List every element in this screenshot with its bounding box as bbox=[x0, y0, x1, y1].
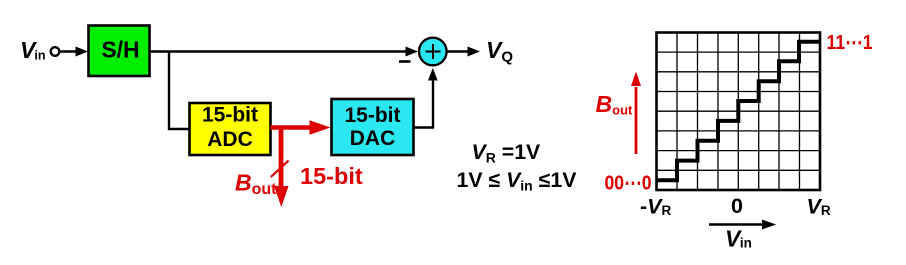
graph grid minor lines bbox=[657, 33, 821, 191]
wire summer to VQ bbox=[448, 50, 471, 52]
svg-text:Vin: Vin bbox=[725, 226, 752, 252]
input terminal circle bbox=[51, 47, 60, 56]
svg-text:15-bit: 15-bit bbox=[300, 163, 363, 189]
svg-text:Bout: Bout bbox=[235, 170, 277, 199]
minus sign bbox=[399, 60, 411, 63]
wire Vin to S/H bbox=[60, 50, 79, 52]
svg-text:VQ: VQ bbox=[486, 37, 513, 66]
axis Bout red arrow bbox=[635, 87, 638, 154]
svg-text:00⋯0: 00⋯0 bbox=[605, 173, 652, 195]
svg-text:-VR: -VR bbox=[640, 195, 672, 219]
svg-text:11⋯1: 11⋯1 bbox=[827, 32, 873, 54]
svg-text:15-bit: 15-bit bbox=[202, 104, 258, 127]
svg-text:ADC: ADC bbox=[207, 128, 253, 151]
axis Vin black arrow bbox=[709, 223, 764, 226]
svg-text:0: 0 bbox=[731, 194, 743, 218]
svg-text:DAC: DAC bbox=[350, 127, 396, 150]
staircase transfer curve bbox=[657, 42, 821, 181]
wire DAC to summer bbox=[414, 78, 434, 128]
red bus Bout down arrow bbox=[279, 126, 284, 188]
svg-text:S/H: S/H bbox=[101, 37, 139, 63]
wire S/H to summer bbox=[150, 50, 408, 52]
red bus wire ADC to DAC bbox=[271, 125, 312, 130]
svg-text:VR: VR bbox=[807, 195, 831, 219]
svg-text:Bout: Bout bbox=[596, 91, 634, 118]
block ADC bbox=[190, 103, 271, 155]
bus width slash bbox=[271, 161, 289, 177]
block DAC bbox=[332, 99, 414, 155]
svg-text:VR =1V: VR =1V bbox=[472, 140, 542, 166]
graph border bbox=[657, 33, 821, 191]
svg-text:Vin: Vin bbox=[20, 37, 45, 63]
wire junction down to ADC bbox=[169, 52, 190, 130]
block S/H bbox=[89, 26, 150, 77]
svg-text:1V ≤ Vin ≤1V: 1V ≤ Vin ≤1V bbox=[457, 168, 578, 194]
summer circle bbox=[419, 38, 447, 66]
svg-text:15-bit: 15-bit bbox=[344, 104, 400, 127]
